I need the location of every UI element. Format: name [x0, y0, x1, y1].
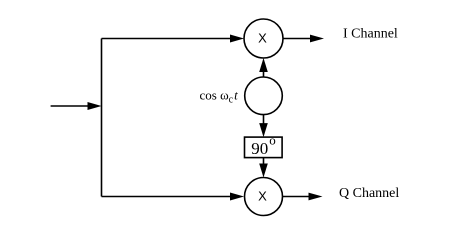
svg-text:X: X	[258, 30, 267, 45]
svg-text:Q Channel: Q Channel	[339, 186, 399, 201]
svg-text:I Channel: I Channel	[343, 27, 398, 42]
wire: mixer U2 output	[283, 196, 311, 198]
arrowhead: input into node A	[88, 102, 102, 110]
oscillator OSC (carrier source)	[245, 77, 283, 115]
arrowhead: top branch into mixer U1	[230, 35, 244, 43]
wire: input signal line	[51, 105, 90, 107]
wire: OSC to mixer U1	[263, 70, 265, 77]
svg-text:o: o	[269, 132, 276, 147]
wire: OSC to phase shifter	[263, 115, 265, 125]
arrowhead: OSC into U1	[259, 58, 268, 72]
arrowhead: bottom branch into mixer U2	[230, 193, 244, 201]
wire: vertical trunk (node A split)	[101, 39, 103, 197]
arrowhead: into phase shifter	[259, 123, 268, 137]
mixer U1 (multiplier, I path)	[244, 19, 283, 58]
wire: top branch to mixer U1	[102, 38, 233, 40]
arrowhead: U1 output	[310, 35, 324, 43]
mixer U2 (multiplier, Q path)	[245, 178, 283, 216]
phase shifter box	[245, 137, 283, 158]
wire: phase shifter to mixer U2	[263, 158, 265, 165]
wire: mixer U1 output	[283, 38, 311, 40]
svg-text:cos ωct: cos ωct	[200, 87, 239, 105]
svg-text:X: X	[258, 188, 267, 203]
arrowhead: into mixer U2	[259, 164, 268, 178]
wire: bottom branch to mixer U2	[102, 196, 233, 198]
arrowhead: U2 output	[309, 193, 323, 201]
svg-text:90: 90	[251, 139, 268, 158]
